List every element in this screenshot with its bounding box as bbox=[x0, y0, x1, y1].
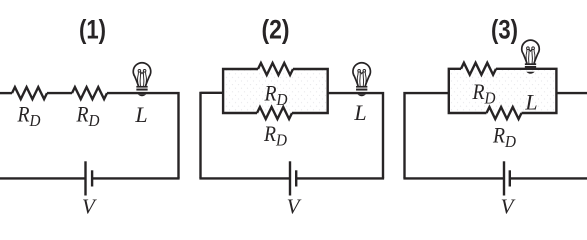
dotted fill of parallel box circuit 3 bbox=[450, 70, 555, 112]
battery V circuit 1: short plate bbox=[91, 170, 93, 186]
battery V circuit 1: long plate bbox=[84, 161, 86, 195]
wire top-left circuit 1 bbox=[0, 92, 12, 94]
parallel box right part circuit 3 bbox=[496, 69, 556, 113]
battery V circuit 2: short plate bbox=[295, 170, 297, 186]
svg-text:L: L bbox=[353, 100, 366, 125]
wire right stub circuit 2 bbox=[328, 92, 383, 178]
parallel box left part circuit 3 bbox=[449, 69, 487, 113]
wire right stub circuit 3 (runs off right edge) bbox=[556, 92, 587, 94]
parallel box left part circuit 2 bbox=[223, 69, 258, 113]
battery V circuit 3: long plate bbox=[503, 161, 505, 195]
wire bottom-right circuit 3 (runs off right edge) bbox=[510, 177, 587, 179]
wire left stub and left side circuit 3 bbox=[405, 92, 449, 178]
wire between resistors circuit 1 bbox=[47, 92, 72, 94]
resistor R_D (circuit 3, top branch) bbox=[461, 63, 496, 75]
resistor R_D (circuit 2, top branch) bbox=[258, 63, 293, 75]
svg-text:(1): (1) bbox=[79, 15, 106, 45]
lamp L (circuit 3, on top branch) bbox=[522, 40, 540, 74]
svg-text:(2): (2) bbox=[262, 15, 290, 45]
svg-text:(3): (3) bbox=[491, 15, 518, 45]
svg-text:V: V bbox=[82, 195, 97, 219]
resistor R_D (circuit 2, bottom branch) bbox=[257, 107, 292, 119]
resistor R_D (circuit 3, bottom branch) bbox=[487, 107, 522, 119]
svg-text:L: L bbox=[134, 102, 147, 127]
wire bottom-right circuit 1 bbox=[92, 177, 180, 179]
svg-text:V: V bbox=[287, 195, 302, 219]
resistor R_D (circuit 1, right) bbox=[72, 87, 107, 99]
wire bottom-left circuit 3 bbox=[403, 177, 504, 179]
wire bottom-right circuit 2 bbox=[296, 177, 384, 179]
wire top-right and right side circuit 1 bbox=[107, 92, 179, 178]
wire left stub and left side circuit 2 bbox=[201, 92, 224, 179]
svg-text:V: V bbox=[501, 195, 516, 219]
lamp L (circuit 2) bbox=[353, 63, 371, 97]
lamp L (circuit 1) bbox=[133, 63, 151, 97]
wire bottom-left circuit 2 bbox=[199, 177, 290, 179]
svg-text:L: L bbox=[524, 90, 537, 115]
resistor R_D (circuit 1, left) bbox=[12, 87, 47, 99]
dotted fill of parallel box circuit 2 bbox=[224, 70, 326, 112]
battery V circuit 2: long plate bbox=[289, 161, 291, 195]
battery V circuit 3: short plate bbox=[509, 170, 511, 186]
wire bottom-left circuit 1 bbox=[0, 177, 86, 179]
parallel box right part circuit 2 bbox=[292, 69, 328, 113]
